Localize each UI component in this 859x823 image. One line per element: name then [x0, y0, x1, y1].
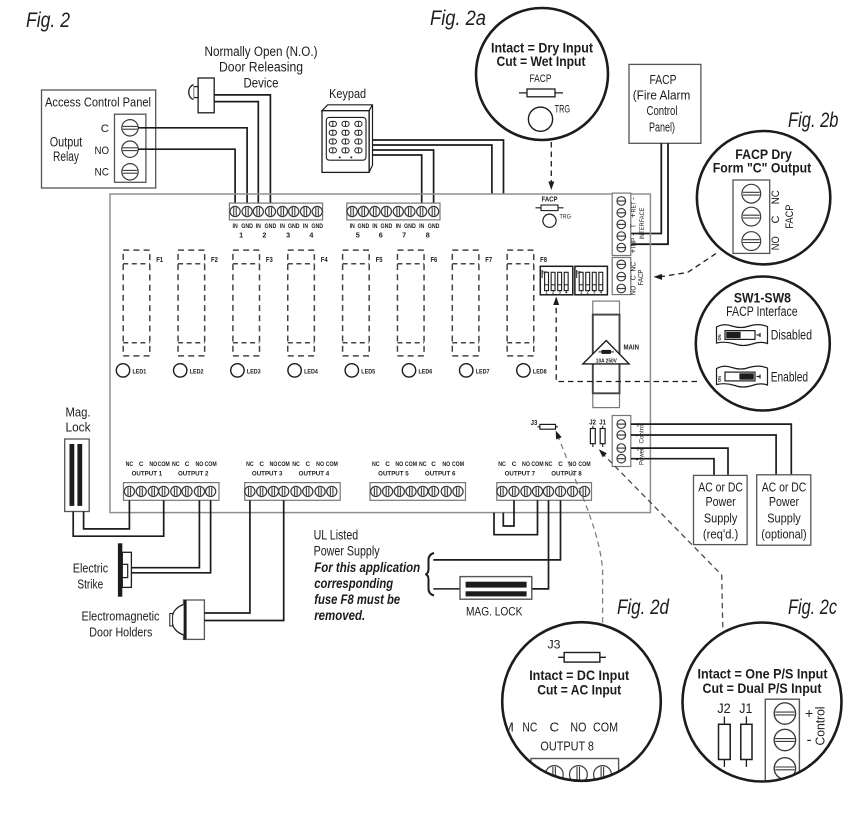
fuse F3 (dashed outline): [233, 250, 273, 356]
input terminal block IN/GND 1-4: [229, 203, 323, 240]
svg-text:T: T: [628, 223, 637, 228]
svg-text:8: 8: [426, 231, 430, 240]
svg-text:NO: NO: [442, 461, 450, 468]
svg-text:COM: COM: [326, 461, 338, 468]
FACP interface terminal block (-RET+ T -INP+): [612, 193, 646, 255]
jumper J3: [531, 418, 558, 429]
svg-text:C: C: [385, 461, 390, 468]
svg-text:Intact = DC Input: Intact = DC Input: [529, 667, 629, 683]
svg-text:LED2: LED2: [190, 368, 204, 375]
svg-text:-: -: [807, 732, 812, 749]
dashed leader SW circle to DIP switches: [553, 297, 697, 382]
svg-text:Door Releasing: Door Releasing: [219, 60, 303, 75]
on-board FACP trigger fuse and TRG: [536, 197, 571, 228]
svg-text:LED8: LED8: [533, 368, 547, 375]
svg-text:C: C: [549, 720, 559, 735]
svg-text:NC: NC: [545, 461, 553, 468]
svg-text:Cut = Wet Input: Cut = Wet Input: [497, 53, 586, 69]
svg-text:C: C: [259, 461, 264, 468]
keypad: [322, 105, 373, 173]
svg-text:FACP: FACP: [784, 205, 796, 229]
svg-text:(req'd.): (req'd.): [703, 527, 738, 541]
figure title Fig. 2b: [788, 109, 839, 132]
svg-text:removed.: removed.: [314, 608, 365, 623]
wire: keypad to GND8: [373, 150, 434, 203]
svg-text:OUTPUT 8: OUTPUT 8: [551, 471, 582, 478]
input terminal block IN/GND 5-8: [347, 203, 440, 240]
svg-text:LED6: LED6: [419, 368, 433, 375]
svg-text:C: C: [558, 461, 563, 468]
figure title Fig. 2: [26, 9, 70, 32]
svg-text:IN: IN: [256, 223, 261, 230]
svg-text:FACP: FACP: [650, 73, 677, 87]
callout circle Fig 2a (FACP trigger input detail): [476, 8, 608, 140]
svg-text:F3: F3: [266, 255, 273, 264]
svg-text:Form "C" Output: Form "C" Output: [713, 160, 812, 176]
wire: FACP to interface INP: [621, 143, 668, 244]
svg-text:Panel): Panel): [649, 121, 675, 135]
svg-text:C: C: [101, 123, 109, 135]
keypad label: [329, 86, 366, 101]
figure title Fig. 2c: [788, 596, 837, 619]
svg-text:C: C: [185, 461, 190, 468]
svg-text:OUTPUT 3: OUTPUT 3: [252, 471, 283, 478]
svg-text:Electromagnetic: Electromagnetic: [82, 609, 160, 624]
dashed leader Fig 2a to board FACP input: [548, 142, 554, 190]
svg-text:Control: Control: [813, 706, 828, 745]
brace for UL power supply wires: [426, 553, 435, 596]
svg-text:2: 2: [262, 231, 266, 240]
svg-text:COM: COM: [278, 461, 290, 468]
electromagnetic door holder device: [170, 600, 205, 639]
svg-text:NC: NC: [172, 461, 180, 468]
AC or DC power supply (required) box: [694, 475, 748, 544]
svg-text:C: C: [512, 461, 517, 468]
wire: control - to optional PS: [631, 435, 776, 475]
svg-text:TRG: TRG: [555, 103, 571, 115]
DIP switch bank SW5-SW8: [575, 266, 608, 295]
svg-text:NO: NO: [269, 461, 277, 468]
svg-text:(optional): (optional): [761, 527, 806, 541]
svg-text:LED3: LED3: [247, 368, 261, 375]
svg-text:J1: J1: [739, 701, 752, 716]
mag lock device: [65, 439, 90, 512]
dashed leader Fig 2b to board FACP output: [654, 254, 717, 280]
svg-text:FACP: FACP: [638, 269, 645, 285]
wire: strike to COM output2: [131, 500, 210, 573]
svg-text:Power: Power: [769, 495, 799, 509]
svg-text:IN: IN: [396, 223, 401, 230]
svg-text:Mag.: Mag.: [66, 405, 91, 419]
access control panel box: [42, 90, 156, 188]
jumper J2: [589, 418, 596, 448]
svg-text:Fig. 2c: Fig. 2c: [788, 596, 837, 619]
svg-text:AC or DC: AC or DC: [762, 480, 807, 494]
wire: brace to mag lock: [433, 588, 460, 590]
svg-text:Fig. 2d: Fig. 2d: [617, 596, 670, 619]
svg-text:GND: GND: [288, 223, 300, 230]
svg-text:-: -: [628, 197, 637, 200]
electric strike device: [118, 543, 132, 596]
svg-text:FACP Interface: FACP Interface: [726, 304, 798, 319]
door releasing device label: [205, 44, 318, 91]
wire: power - to required PS: [631, 459, 714, 476]
wire: output8 NC to mag lock: [532, 500, 549, 589]
svg-text:COM: COM: [205, 461, 217, 468]
LED2: [174, 364, 204, 377]
svg-text:GND: GND: [358, 223, 370, 230]
callout circle Fig 2d (J3 / OUTPUT 8 detail): [502, 622, 661, 798]
callout circle SW1-SW8 FACP interface: [696, 277, 830, 411]
callout circle Fig 2c (J1/J2 power input detail): [683, 623, 842, 786]
figure title Fig. 2d: [617, 596, 670, 619]
svg-text:Cut = Dual P/S Input: Cut = Dual P/S Input: [703, 680, 822, 696]
svg-text:GND: GND: [265, 223, 277, 230]
svg-text:C: C: [770, 215, 782, 223]
svg-text:NC: NC: [419, 461, 427, 468]
svg-text:Fig. 2: Fig. 2: [26, 9, 70, 32]
svg-text:COM: COM: [593, 720, 618, 735]
svg-text:C: C: [631, 275, 638, 280]
wire: strike to NO output2: [131, 500, 199, 567]
svg-text:NO: NO: [770, 236, 782, 250]
dashed leader Fig 2c circle to jumpers J1/J2: [599, 449, 723, 628]
svg-text:Door Holders: Door Holders: [89, 625, 152, 640]
svg-text:F7: F7: [485, 255, 492, 264]
svg-text:UL Listed: UL Listed: [314, 527, 359, 542]
wire: device to IN2: [214, 102, 258, 204]
electric strike label: [73, 561, 109, 592]
svg-text:J3: J3: [531, 418, 538, 427]
svg-text:ON: ON: [717, 376, 723, 382]
svg-text:OUTPUT 7: OUTPUT 7: [505, 471, 536, 478]
wire: keypad to IN8: [373, 155, 422, 203]
LED6: [402, 364, 432, 377]
svg-text:4: 4: [309, 231, 313, 240]
wire: door holder to NC output3: [204, 500, 250, 613]
svg-text:NO: NO: [95, 145, 110, 157]
output terminal block OUTPUT 7/8: [497, 461, 592, 500]
svg-text:GND: GND: [428, 223, 440, 230]
svg-text:Strike: Strike: [77, 576, 103, 591]
svg-text:Cut = AC Input: Cut = AC Input: [537, 682, 621, 698]
svg-text:COM: COM: [405, 461, 417, 468]
svg-text:NO: NO: [149, 461, 157, 468]
fuse F5 (dashed outline): [343, 250, 383, 356]
svg-text:LED1: LED1: [133, 368, 147, 375]
svg-text:F2: F2: [211, 255, 218, 264]
svg-text:Power: Power: [706, 495, 736, 509]
svg-text:NO: NO: [631, 285, 638, 295]
electromagnetic door holders label: [82, 609, 160, 640]
wire: panel C to GND1: [138, 128, 247, 203]
svg-text:Power: Power: [639, 447, 646, 465]
svg-text:LED7: LED7: [476, 368, 490, 375]
svg-text:+: +: [628, 213, 637, 218]
svg-text:COM: COM: [158, 461, 170, 468]
wire: device to GND2: [214, 95, 270, 203]
wire: mag lock to NC output1: [84, 500, 130, 529]
svg-text:ON: ON: [717, 334, 723, 340]
svg-text:+: +: [628, 248, 637, 253]
svg-text:(Fire Alarm: (Fire Alarm: [633, 89, 691, 103]
jumper J1: [599, 418, 606, 448]
svg-text:3: 3: [286, 231, 290, 240]
svg-text:RET: RET: [630, 201, 637, 212]
svg-text:NC: NC: [498, 461, 506, 468]
AC or DC power supply (optional) box: [757, 475, 811, 545]
output terminal block OUTPUT 5/6: [370, 461, 466, 500]
svg-text:GND: GND: [241, 223, 253, 230]
wire: keypad line 2: [373, 145, 492, 194]
svg-text:Control: Control: [639, 423, 646, 443]
svg-text:IN: IN: [280, 223, 285, 230]
svg-text:J3: J3: [548, 638, 561, 652]
output terminal block OUTPUT 3/4: [245, 461, 341, 500]
svg-text:GND: GND: [404, 223, 416, 230]
door releasing device (pushbutton): [189, 78, 214, 113]
svg-text:NC: NC: [522, 720, 537, 735]
svg-text:J2: J2: [717, 701, 731, 716]
svg-text:NC: NC: [372, 461, 380, 468]
callout circle Fig 2b (FACP dry form C output): [697, 131, 830, 264]
wire: door holder to COM output3: [204, 500, 283, 620]
wire: output8 C to brace: [433, 500, 560, 560]
svg-text:For this application: For this application: [314, 560, 420, 575]
wire: panel NO to IN1: [138, 149, 235, 203]
wire: output7 COM hook: [494, 500, 538, 534]
svg-text:Access Control Panel: Access Control Panel: [45, 95, 151, 110]
svg-text:NO: NO: [195, 461, 203, 468]
svg-text:F6: F6: [430, 255, 437, 264]
svg-text:NC: NC: [770, 190, 782, 204]
LED1: [116, 364, 146, 377]
svg-text:Fig. 2b: Fig. 2b: [788, 109, 839, 132]
svg-text:FACP: FACP: [542, 197, 558, 204]
svg-text:F5: F5: [376, 255, 383, 264]
svg-text:MAG. LOCK: MAG. LOCK: [466, 604, 523, 618]
svg-text:GND: GND: [311, 223, 323, 230]
DIP switch bank SW1-SW4: [540, 266, 573, 295]
svg-text:Output: Output: [50, 134, 83, 149]
svg-text:Electric: Electric: [73, 561, 109, 576]
fuse F2 (dashed outline): [178, 250, 218, 356]
svg-text:OUTPUT 5: OUTPUT 5: [378, 471, 409, 478]
svg-text:LED5: LED5: [361, 368, 375, 375]
LED4: [288, 364, 318, 377]
svg-text:10A 250V: 10A 250V: [596, 358, 617, 364]
fuse F6 (dashed outline): [397, 250, 437, 356]
power/control input terminal block: [612, 416, 645, 467]
LED5: [345, 364, 375, 377]
svg-text:INTERFACE: INTERFACE: [639, 208, 646, 240]
svg-text:OUTPUT 1: OUTPUT 1: [132, 471, 163, 478]
svg-text:J1: J1: [599, 418, 606, 427]
LED8: [517, 364, 547, 377]
wire: control + to optional PS: [631, 424, 792, 475]
svg-text:1: 1: [239, 231, 243, 240]
svg-text:IN: IN: [233, 223, 238, 230]
svg-text:TRG: TRG: [560, 214, 571, 221]
svg-text:Fig. 2a: Fig. 2a: [430, 7, 486, 30]
svg-text:Disabled: Disabled: [771, 327, 812, 342]
wire: FACP to interface T: [621, 143, 661, 233]
wire: mag lock to COM output1: [73, 500, 164, 536]
MAG. LOCK device (bottom): [460, 577, 532, 619]
svg-text:-: -: [628, 233, 637, 236]
FACP dry output terminal block (NO C NC): [612, 258, 645, 296]
fuse F4 (dashed outline): [288, 250, 328, 356]
svg-text:Enabled: Enabled: [771, 369, 808, 384]
svg-text:OUTPUT 2: OUTPUT 2: [178, 471, 209, 478]
svg-text:IN: IN: [350, 223, 355, 230]
MAIN fuse 10A 250V: [583, 301, 639, 408]
fuse F1 (dashed outline): [123, 250, 163, 356]
svg-text:C: C: [139, 461, 144, 468]
svg-text:Lock: Lock: [66, 421, 92, 435]
wire: keypad line 1: [373, 140, 504, 194]
svg-text:IN: IN: [372, 223, 377, 230]
dashed leader Fig 2d circle to jumper J3: [556, 431, 603, 624]
svg-text:Control: Control: [647, 104, 678, 118]
svg-text:COM: COM: [531, 461, 543, 468]
svg-text:NO: NO: [522, 461, 530, 468]
UL listed power supply note: [314, 527, 421, 623]
svg-text:Device: Device: [244, 76, 279, 91]
svg-text:INP: INP: [630, 238, 637, 249]
svg-text:COM: COM: [452, 461, 464, 468]
svg-text:Supply: Supply: [704, 512, 738, 526]
main board outline: [110, 194, 650, 513]
LED3: [231, 364, 261, 377]
svg-text:LED4: LED4: [304, 368, 318, 375]
svg-text:NC: NC: [126, 461, 134, 468]
FACP (fire alarm control panel) box: [629, 64, 701, 143]
svg-text:Supply: Supply: [767, 512, 801, 526]
svg-text:MAIN: MAIN: [624, 343, 640, 352]
svg-text:Keypad: Keypad: [329, 86, 366, 101]
svg-text:Relay: Relay: [53, 149, 79, 164]
svg-text:corresponding: corresponding: [314, 576, 394, 591]
svg-text:C: C: [305, 461, 310, 468]
svg-text:F8: F8: [540, 255, 547, 264]
svg-text:F4: F4: [321, 255, 328, 264]
svg-text:NO: NO: [570, 720, 586, 735]
svg-text:OUTPUT 6: OUTPUT 6: [425, 471, 456, 478]
svg-text:AC or DC: AC or DC: [698, 480, 743, 494]
output terminal block OUTPUT 1/2: [124, 461, 220, 500]
figure title Fig. 2a: [430, 7, 486, 30]
fuse F8 (dashed outline): [507, 250, 547, 356]
svg-text:OUTPUT 4: OUTPUT 4: [299, 471, 330, 478]
svg-text:C: C: [431, 461, 436, 468]
svg-text:Power Supply: Power Supply: [314, 544, 380, 559]
svg-text:OUTPUT 8: OUTPUT 8: [540, 739, 594, 754]
svg-text:COM: COM: [578, 461, 590, 468]
svg-text:NC: NC: [95, 167, 110, 179]
svg-text:NC: NC: [631, 262, 638, 272]
fuse F7 (dashed outline): [452, 250, 492, 356]
svg-text:F1: F1: [156, 255, 163, 264]
svg-text:NC: NC: [292, 461, 300, 468]
mag lock label: [66, 405, 92, 434]
wire: power + to required PS: [631, 448, 728, 475]
svg-text:NO: NO: [395, 461, 403, 468]
svg-text:5: 5: [356, 231, 360, 240]
svg-text:6: 6: [379, 231, 383, 240]
svg-text:fuse F8 must be: fuse F8 must be: [314, 592, 400, 607]
svg-text:7: 7: [402, 231, 406, 240]
svg-text:GND: GND: [381, 223, 393, 230]
svg-text:J2: J2: [589, 418, 596, 427]
LED7: [460, 364, 490, 377]
svg-text:NC: NC: [246, 461, 254, 468]
svg-text:Normally Open (N.O.): Normally Open (N.O.): [205, 44, 318, 59]
wire: output7 C hook: [503, 500, 514, 526]
svg-text:IN: IN: [419, 223, 424, 230]
svg-text:NO: NO: [316, 461, 324, 468]
svg-text:IN: IN: [303, 223, 308, 230]
svg-text:FACP: FACP: [530, 73, 552, 85]
